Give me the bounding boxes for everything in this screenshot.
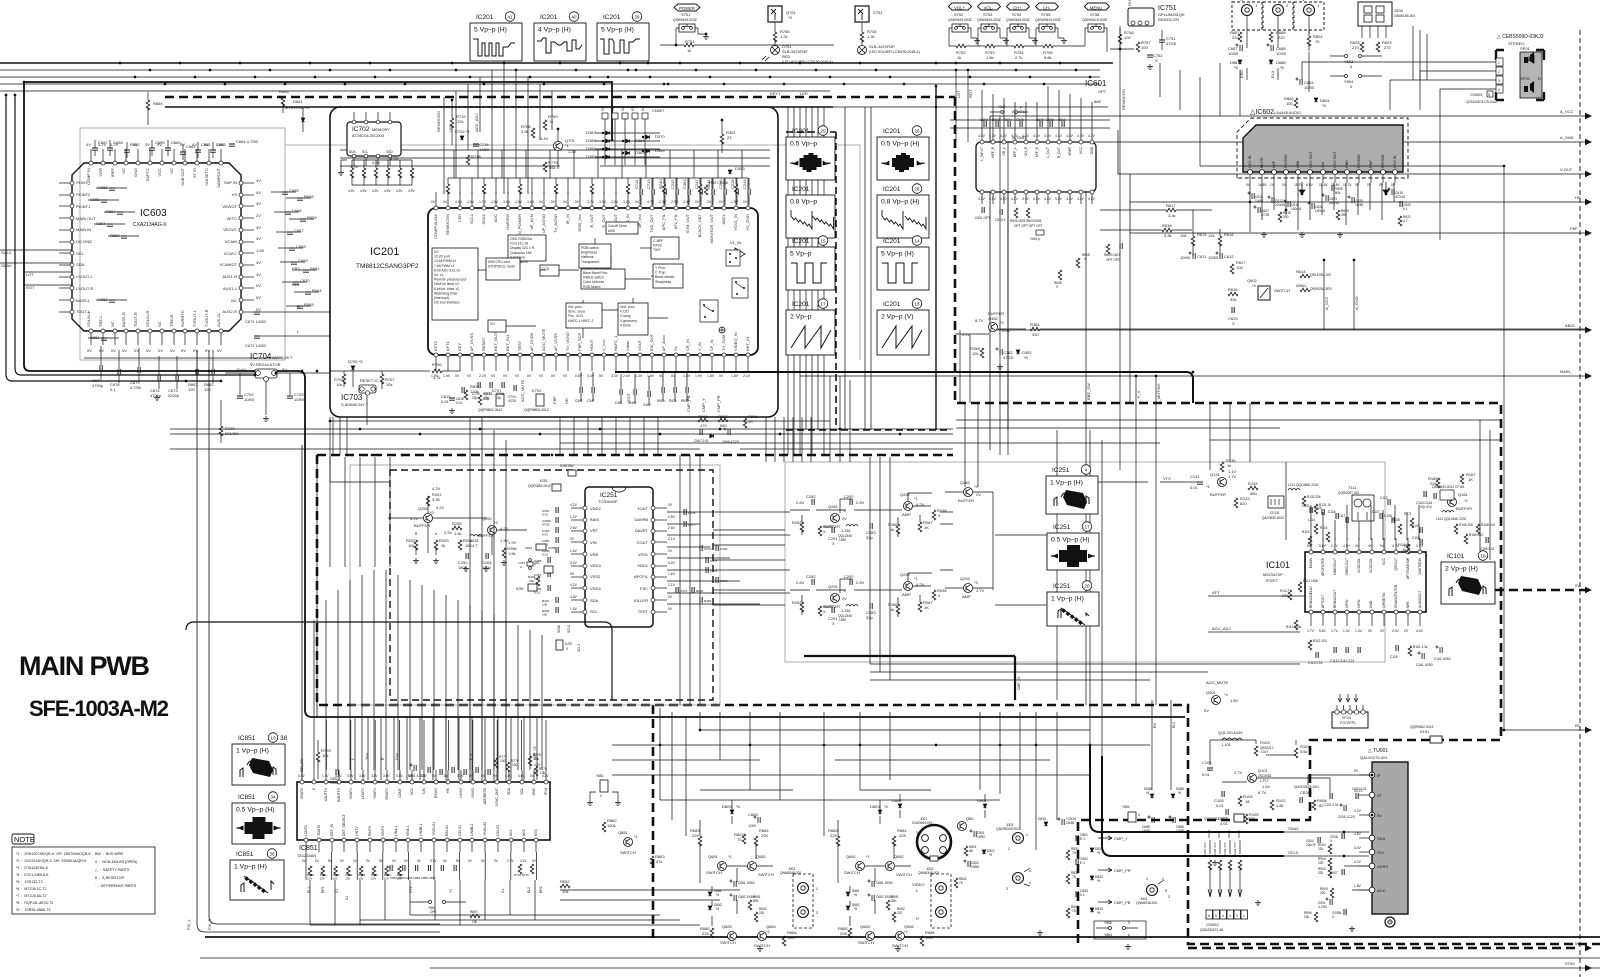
svg-text:C663: C663 [216,142,226,147]
pin IC101 bottom IFVAGCFILTER [1394,610,1398,614]
diode D682 A [708,906,712,910]
capacitor C659 [149,148,155,150]
svg-text:VIDEOOUT: VIDEOOUT [1333,558,1337,575]
svg-text:2.5V: 2.5V [444,530,453,535]
svg-text:Display 32C x R: Display 32C x R [510,246,535,250]
svg-text:(LED HOLDER:LC30190-0018-A): (LED HOLDER:LC30190-0018-A) [869,50,920,54]
resistor R772 R771 10k [518,864,522,874]
svg-text:△ TU001: △ TU001 [1368,748,1388,754]
svg-text:C244: C244 [742,179,747,189]
svg-text:2: 2 [1008,847,1010,851]
transistor Q293 output [964,584,973,593]
svg-text:C681 19/50: C681 19/50 [738,881,755,885]
svg-text:uP_AVcc: uP_AVcc [661,335,666,351]
wire long net B verticals [333,330,970,705]
pin IC251 right KILLER [651,598,655,602]
capacitor C601 OPT [982,207,984,213]
IC IC851 TA1218AN body [297,782,550,840]
pin IC201 bottom uP_VVSS [554,353,558,357]
svg-text:K001: K001 [1246,816,1256,821]
svg-text:CMP_Y: CMP_Y [1114,836,1128,841]
svg-text:IC704: IC704 [250,352,272,361]
capacitor cluster C115 C116 C123 [1334,647,1336,653]
connector J002 QNN6348-001 [780,867,818,928]
terminal MAIN_ [800,369,1592,379]
capacitor C605 OPT [1020,121,1022,127]
svg-text:D807: D807 [892,798,902,803]
svg-text:4.3V: 4.3V [1088,134,1096,138]
svg-text:AUX1-R: AUX1-R [222,274,237,279]
svg-text:20k: 20k [529,579,534,583]
svg-text:IC101: IC101 [1447,553,1465,560]
svg-text:10k: 10k [386,382,392,387]
svg-text:VOL-: VOL- [984,6,994,11]
svg-text:SCL: SCL [362,150,368,154]
svg-text:CMP_Y: CMP_Y [701,398,706,412]
capacitor C228 [736,189,738,195]
svg-text:RESET IC: RESET IC [360,378,378,383]
resistor R718 [466,155,470,165]
svg-text:100: 100 [204,387,211,392]
svg-text:RGB switch: RGB switch [581,246,599,250]
wire long vertical L bus [935,86,937,430]
pin IC201 top APC_FIL [662,206,666,210]
pin IC251 right DAVRT [651,529,655,533]
svg-text:C118: C118 [1390,655,1398,659]
capacitor C118b [1396,645,1398,651]
pin IC851 bottom VINTV [381,838,385,842]
resistor R161 3.3k [1408,646,1412,656]
resistor fan R157 R166 R163 R164 [1208,860,1212,870]
svg-text:VIDEO: VIDEO [912,882,924,887]
wire bus riser [669,150,671,178]
wire bus riser [501,150,503,178]
svg-text:D705 *5: D705 *5 [348,359,363,364]
svg-text:5V: 5V [282,367,287,372]
transistor Q251 BUFFER [424,514,433,523]
svg-text:100: 100 [307,877,312,881]
svg-text:C276: C276 [704,547,712,551]
resistor R135 1k [1220,462,1224,472]
pin IC602 RBB [1345,170,1350,175]
diode D363 [626,151,630,155]
svg-text:100: 100 [1286,101,1293,106]
capacitor R658 [297,198,303,200]
svg-text:18: 18 [914,302,920,307]
pin selector top GND [1090,140,1094,144]
svg-text:3.3K: 3.3K [432,497,441,502]
svg-text:C613 X: C613 X [995,218,1007,222]
terminal HD [1130,174,1592,205]
svg-text:1k: 1k [890,527,894,532]
svg-text:4.4V: 4.4V [1416,629,1424,633]
bus bar K001 QQR05B2-001Z [1234,814,1244,822]
wire AV long nets [612,708,1150,836]
wire IC603 frame top [24,82,612,140]
svg-text:Vdetc: Vdetc [625,341,630,351]
svg-text:CH_R: CH_R [1024,146,1028,156]
pin IC101 top VCOCOIL [1357,550,1361,554]
pin IC602 LNF [1272,170,1277,175]
svg-text:*6: *6 [1097,851,1100,855]
svg-text:LIN4B-1: LIN4B-1 [419,823,423,836]
waveform IC201 (39) 5 Vp&#8211;p (H) [597,12,649,61]
svg-text:IC201: IC201 [883,186,901,193]
svg-text:TC90A69P: TC90A69P [598,499,618,504]
svg-text:36: 36 [269,852,275,857]
svg-text:APCFIL: APCFIL [634,574,649,579]
svg-text:R241: R241 [706,179,711,189]
svg-text:TV_AGND: TV_AGND [553,214,558,233]
svg-text:3.4V: 3.4V [683,200,691,204]
pin IC201 bottom TV_VGND [566,353,570,357]
svg-text:Y Proc.: Y Proc. [655,266,666,270]
resistor R802 75 [954,878,958,888]
svg-text:33k: 33k [1230,297,1236,302]
svg-text:Sync. sepa: Sync. sepa [568,310,585,314]
svg-text:820: 820 [1240,501,1247,506]
svg-text:100k: 100k [607,823,616,828]
resistor R856 100 [385,866,389,876]
svg-text:A_VCC: A_VCC [1012,109,1025,114]
svg-text:1.3V: 1.3V [568,149,577,154]
pin CN007 2 [612,113,618,119]
pin selector bottom [991,190,995,194]
svg-text:*6: *6 [989,853,992,857]
svg-text:Q681: Q681 [708,854,719,859]
capacitor C292 row2L [850,579,852,585]
pin IC851 bottom M02 [522,838,526,842]
waveform IC101 (18) 2 Vp&#8211;p (H) [1441,551,1495,604]
svg-text:2.4V: 2.4V [1392,629,1400,633]
svg-text:0V: 0V [719,374,724,378]
svg-text:QQP05B2-001Z: QQP05B2-001Z [478,408,502,412]
pin J008 1 [1361,26,1363,38]
svg-text:uP_AGND: uP_AGND [541,214,546,233]
svg-text:LOUT1: LOUT1 [361,788,365,799]
svg-text:C101 0.01: C101 0.01 [1324,803,1339,807]
svg-text:Y854: Y854 [1104,933,1112,937]
capacitor C672 10/50 [254,336,260,338]
svg-text:NC: NC [157,321,162,327]
svg-text:SURRTC: SURRTC [180,310,185,327]
transistor Q352 BUFFER [989,323,998,332]
IC IC702 MEMORY AT24C04-20C003 [347,122,401,156]
wire long net C right [965,116,1130,756]
svg-text:4.2V: 4.2V [436,505,445,510]
pushbutton MENU S756 [1082,3,1110,52]
wire cluster outputs [945,492,993,590]
capacitor C627 47/25 [1254,206,1261,214]
svg-text:SLB-342VR3F: SLB-342VR3F [869,44,895,49]
svg-text:D353: D353 [735,166,745,171]
capacitor C656 [109,188,115,190]
svg-text:4.3V: 4.3V [1044,197,1052,201]
capacitor C275 [706,557,708,563]
bus bar K251 QQP05B2-001Z [552,484,561,491]
capacitor C704 [514,385,516,391]
svg-text:0V: 0V [431,200,436,204]
svg-text:40: 40 [571,15,577,20]
svg-text:88E: 88E [1094,99,1101,104]
capacitor R241 [712,189,714,195]
svg-text:0V: 0V [146,348,151,353]
svg-text:EI2: EI2 [1153,723,1157,728]
pin TU001 IF [1369,772,1375,778]
svg-text:0V: 0V [563,374,568,378]
capacitor C625 10/50 [1348,196,1355,204]
svg-text:3.1V: 3.1V [410,516,419,521]
IC IC602 LA4445 AUDIO body [1243,125,1403,172]
svg-text:100: 100 [333,877,338,881]
svg-text:C655: C655 [90,197,100,202]
capacitor C751 47/25 [1159,40,1165,42]
wire IC251 to buffers [667,512,790,604]
svg-text:QQP05BD-001Z: QQP05BD-001Z [524,408,549,412]
svg-text:1: 1 [816,887,818,891]
svg-text:C651: C651 [90,335,100,340]
svg-text:2.6V: 2.6V [856,580,865,585]
svg-text:6 : S₂RESISTOR: 6 : S₂RESISTOR [95,876,124,880]
LED D751 SLB-342VR3F RED [762,44,833,64]
svg-text:PCINT2: PCINT2 [76,192,91,197]
wire pin riser [687,178,689,194]
pin IC201 top YS_IN [626,206,630,210]
svg-text:CCD: CCD [542,267,550,271]
svg-text:QAX3349-001: QAX3349-001 [1294,784,1320,789]
resistor R134 680 [1248,486,1258,490]
svg-text:1.1V: 1.1V [1228,469,1237,474]
resistor R604 75 [1307,36,1311,46]
diode D702 [460,136,464,140]
waveform IC201 () 0.8 Vp&#8211;p [786,186,835,238]
thin frame chroma section [350,465,720,705]
svg-text:12k: 12k [1208,233,1214,238]
capacitor R004 220 [1328,844,1332,854]
svg-text:1K: 1K [1468,477,1473,482]
resistor R200 pullup [446,184,450,194]
svg-text:CIN-S2: CIN-S2 [496,825,500,836]
svg-text:Init/Ext switch: Init/Ext switch [583,276,604,280]
svg-text:0V: 0V [743,200,748,204]
resistor R618 3.3k [1162,228,1172,232]
svg-text:*6: *6 [716,893,719,897]
svg-text:0V: 0V [551,200,556,204]
resistor R286 row1L [896,524,900,534]
NOTE table rows [16,852,137,912]
transistor Q101 2SC5063 L-P/-T [1248,774,1257,783]
svg-text:0V: 0V [205,348,210,353]
svg-text:C661: C661 [186,144,196,149]
pin IC851 bottom LIN4-1 [394,838,398,842]
resistor R252 20k [536,576,540,586]
pin IC251 left VDD2 [583,506,587,510]
svg-text:CH+: CH+ [1013,6,1022,11]
svg-text:SDA1: SDA1 [481,213,486,224]
resistor R288 row2L [932,590,936,600]
svg-text:R609 C607: R609 C607 [1104,253,1120,257]
svg-text:220: 220 [1278,35,1285,40]
svg-text:BBE_SW: BBE_SW [1086,383,1091,400]
svg-text:R168 100: R168 100 [1481,523,1495,527]
pin IC851 bottom DET_SELECT [342,838,346,842]
svg-text:4.2V: 4.2V [570,503,578,507]
pin IC851 bottom LINTV [355,838,359,842]
thin frame IC603 section [80,128,285,360]
svg-text:R166 470: R166 470 [1213,842,1217,856]
svg-text:OPT OPT OPT OPT: OPT OPT OPT OPT [1014,224,1043,228]
svg-text:75: 75 [1072,909,1076,913]
pin selector top VREF [1068,140,1072,144]
svg-text:1/50: 1/50 [748,823,757,828]
capacitor C663 [210,150,216,152]
svg-text:ER2: ER2 [539,886,543,893]
diode D681 A [708,892,712,896]
wire bottom bus 3 [430,967,1600,969]
resistor R296 1K [743,418,747,428]
svg-text:GND: GND [1369,600,1373,608]
svg-text:100: 100 [542,603,547,607]
svg-text:220/16: 220/16 [1275,203,1285,207]
svg-text:2V: 2V [256,213,261,218]
svg-text:R772 R773: R772 R773 [514,873,529,877]
svg-text:CH2 OUT: CH2 OUT [1333,151,1337,168]
svg-text:L161 QQL244K-2202: L161 QQL244K-2202 [1436,517,1467,521]
svg-text:EGAIN: EGAIN [1309,557,1313,568]
svg-text:1.9V: 1.9V [508,540,517,545]
svg-text:BW : BUS WIRE: BW : BUS WIRE [95,852,124,856]
svg-text:C601 OPT: C601 OPT [975,216,990,220]
svg-text:X : NON-MOUNT(OPEN): X : NON-MOUNT(OPEN) [95,860,137,864]
svg-text:C275: C275 [710,559,718,563]
svg-text:X: X [832,541,835,546]
capacitor C879 [440,769,442,775]
capacitor C609 OPT [1040,121,1042,127]
svg-text:18: 18 [1480,554,1486,559]
capacitor C660 [165,148,171,150]
svg-text:VOLIN-R: VOLIN-R [145,311,150,327]
capacitor C864 10/50 [1296,78,1303,86]
resistor R626 33k [1228,292,1238,296]
svg-text:IC703: IC703 [341,393,363,402]
pin IC201 bottom HAFC_1 [614,353,618,357]
pin IC201 bottom uP_DVSS [470,353,474,357]
svg-text:SDA: SDA [590,598,599,603]
pin IC201 top R_OUT [590,206,594,210]
svg-text:AKB: AKB [608,229,616,233]
diode D685 [1150,794,1154,798]
svg-text:0V: 0V [443,200,448,204]
svg-text:5 Vp–p: 5 Vp–p [790,251,812,258]
capacitor C662 [195,150,201,152]
svg-text:3: 3 [1006,887,1008,891]
svg-text:0V: 0V [719,200,724,204]
dashed stub 0V [1495,589,1586,592]
svg-text:IC251: IC251 [1053,524,1071,531]
dashed border chroma section [317,455,1600,944]
resistor R215 pullup [626,184,630,194]
svg-text:MEMORY: MEMORY [372,127,390,132]
capacitor R261 100 [556,597,558,603]
svg-text:VINV2: VINV2 [471,788,475,798]
resistor R852 10k [560,884,570,888]
resistor R755 5.6k [1043,44,1053,48]
svg-text:R657: R657 [130,142,140,147]
svg-text:VCATC: VCATC [224,251,237,256]
svg-text:A_GND: A_GND [1354,296,1359,310]
svg-text:TA1218AN: TA1218AN [297,853,316,858]
transistor Q684 SWITCH B [896,932,905,941]
svg-text:CN20454-001: CN20454-001 [912,821,933,825]
svg-text:4.3V: 4.3V [1033,197,1041,201]
waveform IC251 (17) 0.5 Vp&#8211;p (H) [1047,522,1099,570]
ground IC251 buffers [413,558,419,564]
block IC201 bb [581,269,625,289]
resistor R102 1.8k [1270,800,1274,810]
svg-text:COUT: COUT [398,788,402,798]
svg-text:IC201: IC201 [883,238,901,245]
svg-text:AFTSVA/RSW: AFTSVA/RSW [1406,557,1410,579]
svg-text:0V: 0V [539,374,544,378]
svg-text:22K: 22K [830,833,837,838]
svg-text:4.2V: 4.2V [570,561,578,565]
svg-text:IFVAGCFILTER: IFVAGCFILTER [1394,584,1398,608]
svg-text:RGB Matrix: RGB Matrix [583,285,601,289]
svg-text:1K: 1K [924,525,929,530]
svg-text:3.9k: 3.9k [521,129,529,134]
svg-text:2.6V: 2.6V [796,580,805,585]
svg-text:4.3V: 4.3V [1055,197,1063,201]
capacitor C105 0.01 [1222,791,1224,797]
svg-text:TEST: TEST [638,609,649,614]
capacitor C681 19/50 A [730,880,737,888]
svg-text:CXA2134AG-X: CXA2134AG-X [133,222,167,228]
capacitor R906 22k [1314,912,1318,922]
svg-text:R111 150k: R111 150k [1303,579,1318,583]
svg-text:LBB: LBB [1296,160,1300,168]
capacitor R654 [117,212,123,214]
bus bar Y852 X [600,780,608,792]
pin IC603 left MAIN IN [59,229,72,231]
capacitor C117 [1346,517,1348,523]
svg-text:17: 17 [1084,525,1090,530]
ground IC602 area [1261,232,1267,238]
svg-text:C656: C656 [98,185,108,190]
svg-text:SWITCH: SWITCH [706,870,722,875]
svg-text:VDD3: VDD3 [590,563,601,568]
svg-text:4.3V: 4.3V [989,197,997,201]
svg-text:3.3k: 3.3k [1168,213,1176,218]
pin selector bottom [1002,190,1006,194]
resistor R863 47k [650,856,654,866]
svg-text:D366: D366 [586,146,596,151]
svg-text:1.9V: 1.9V [443,374,451,378]
transistor Q681 SWITCH A [718,862,727,871]
capacitor C682 B [868,894,875,902]
svg-text:8-bit ADC Ex1.x3: 8-bit ADC Ex1.x3 [434,268,460,272]
pin IC851 bottom Y/VIN-S2 [483,838,487,842]
svg-text:IC201: IC201 [792,128,810,135]
svg-text:4V: 4V [256,236,261,241]
svg-text:CMP_Y2: CMP_Y2 [533,746,537,760]
capacitor C258 X [548,557,550,563]
resistor R685 22K B [848,928,852,938]
pin IC201 bottom BKT_OUT [494,353,498,357]
pushbutton VOL+ S752 [948,3,980,46]
wire pin riser [615,178,617,194]
svg-text:4.7/50: 4.7/50 [1318,905,1327,909]
svg-text:TM8812CSANG3PF2: TM8812CSANG3PF2 [356,263,419,270]
